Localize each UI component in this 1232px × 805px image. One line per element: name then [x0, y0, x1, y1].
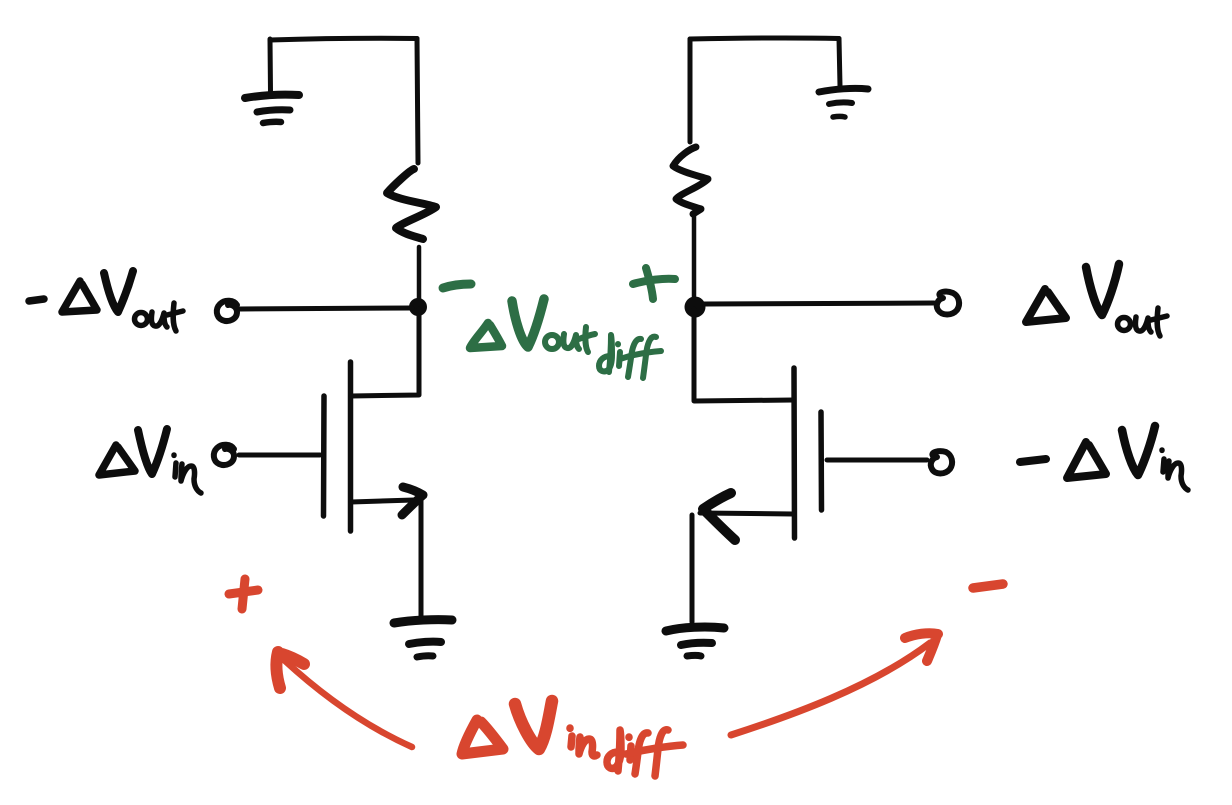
label dVoutdiff sub u	[563, 334, 579, 349]
wire node B to right output terminal	[704, 303, 934, 304]
label -dVin delta	[1067, 442, 1106, 478]
transistor M1 channel bar	[348, 362, 354, 531]
green annotations	[443, 268, 675, 378]
label dVoutdiff delta	[470, 323, 502, 348]
label dVoutdiff sub o	[545, 335, 559, 349]
wire resistor R1 to node A	[417, 247, 422, 306]
label dVindiff delta	[462, 720, 503, 754]
resistor R1	[387, 169, 436, 239]
transistor M2 channel bar	[791, 368, 797, 538]
label -dVout minus	[29, 299, 44, 301]
label -dVout V	[104, 271, 133, 312]
red annotations	[229, 579, 1003, 776]
label dVout right V	[1086, 264, 1119, 315]
red arrow left head	[276, 652, 304, 688]
ground bottom-right	[666, 627, 724, 656]
wire right ground drop	[839, 39, 840, 87]
label dVin sub i	[174, 455, 176, 477]
label dVindiff sub f2	[655, 730, 668, 776]
green minus sign	[443, 284, 471, 288]
ground bottom-left	[394, 620, 452, 657]
label -dVout delta	[62, 281, 97, 312]
wire rail down to resistor R1	[417, 39, 418, 164]
wire node A to left output terminal	[240, 308, 412, 309]
resistor R2	[673, 147, 708, 214]
wire resistor R2 to node B	[692, 216, 697, 306]
label dVoutdiff sub d	[599, 335, 612, 372]
label dVoutdiff sub f2	[643, 337, 656, 378]
wire rail down to resistor R2	[688, 39, 693, 142]
node B junction dot	[685, 297, 706, 318]
red arrow right head	[905, 633, 938, 661]
label dVout right sub t	[1157, 308, 1160, 336]
label dVindiff sub n	[579, 737, 597, 756]
red plus sign	[229, 579, 258, 609]
transistor M2 gate bar	[818, 412, 824, 510]
label dVoutdiff sub t	[585, 327, 588, 352]
wire M2 source to ground	[690, 515, 695, 622]
label -dVout sub o	[135, 313, 148, 326]
transistor M1 gate bar	[321, 396, 327, 516]
label -dVout sub t crossbar	[167, 311, 183, 315]
terminal circle dVout right	[937, 292, 959, 315]
transistor M1 drain connection	[351, 309, 419, 396]
wire left ground drop	[268, 39, 274, 92]
label dVoutdiff sub f1	[628, 339, 641, 377]
label dVout right delta	[1026, 289, 1066, 322]
label dVindiff sub ff crossbar	[626, 745, 683, 754]
green plus sign	[633, 268, 675, 299]
transistor M2 source wire	[700, 513, 793, 514]
node A junction dot	[409, 298, 427, 316]
label dVindiff sub i	[570, 728, 572, 747]
terminal circle -dVin	[931, 451, 952, 473]
red arrow left tail	[284, 660, 412, 747]
transistor M1 source arrow	[402, 487, 423, 515]
label dVoutdiff V	[512, 299, 544, 347]
label dVindiff sub d	[607, 730, 621, 771]
label dVoutdiff sub t crossbar	[579, 334, 595, 339]
label dVin sub n	[181, 464, 201, 493]
red minus sign	[973, 584, 1003, 588]
ground top-left	[245, 95, 299, 123]
transistor M2 drain connection	[694, 309, 793, 401]
label dVindiff V	[515, 701, 552, 749]
ground top-right	[819, 88, 868, 117]
wire gate dVin	[239, 453, 320, 458]
label -dVin V	[1122, 426, 1155, 475]
label dVindiff sub i2	[629, 737, 631, 760]
transistor M2 source arrow	[703, 493, 735, 540]
label dVoutdiff sub ff crossbar	[620, 351, 661, 359]
label dVout right sub o	[1118, 318, 1131, 331]
label dVout right sub t crossbar	[1151, 316, 1167, 320]
label -dVin sub i	[1162, 450, 1164, 472]
label -dVout sub t	[173, 303, 176, 331]
label -dVout sub u	[151, 312, 167, 327]
wire M1 source to ground	[419, 498, 424, 616]
transistor M1 source wire	[351, 500, 414, 502]
label dVin V	[138, 429, 167, 474]
wire gate -dVin	[827, 458, 927, 463]
label dVoutdiff sub i	[618, 344, 620, 366]
terminal circle -Vout	[217, 301, 237, 321]
red arrow right tail	[731, 643, 930, 735]
label dVout right sub u	[1135, 317, 1151, 332]
label -dVin minus	[1020, 459, 1046, 462]
label dVin delta	[99, 445, 135, 475]
terminal circle dVin	[214, 445, 234, 465]
wire top rail left	[270, 38, 417, 40]
wire top rail right	[690, 38, 839, 39]
label -dVin sub n	[1168, 461, 1188, 490]
label dVindiff sub f1	[635, 733, 648, 774]
